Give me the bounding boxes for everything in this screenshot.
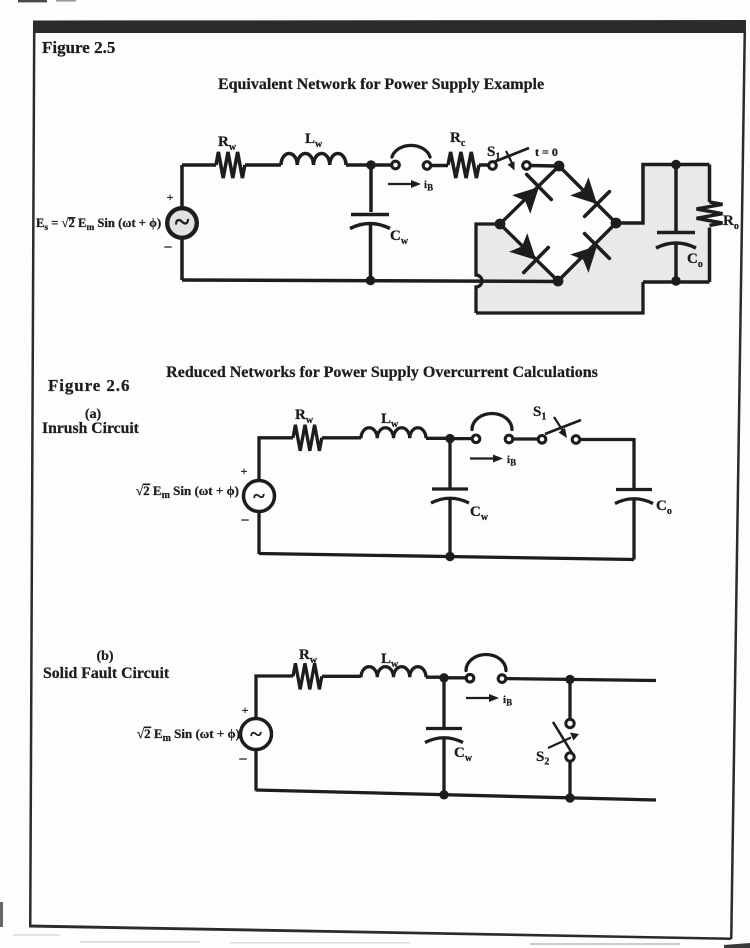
wire: Ro lower lead [708,228,712,283]
node S2 top (b) [565,675,574,684]
svg-text:Figure 2.5: Figure 2.5 [42,38,115,57]
wire: bottom rail fig 2.5 [182,280,558,282]
wire: left rail upper (b) [256,676,293,718]
switch S1 blade (a) [545,420,581,434]
wire: Cw branch upper [369,165,373,212]
CT terminal left (open circle) [392,161,400,169]
current arrow iB (a) [470,457,495,459]
bridge edge L-B [500,224,558,281]
capacitor Cw curved plate (b) [425,738,463,743]
switch S2 closing arrow (b) [548,738,571,749]
capacitor Cw plate [351,213,389,217]
diode D1 (upper-left arm) [512,187,539,214]
wire: Lw to node [346,163,371,167]
wire: top rail to Rw [182,163,216,167]
svg-text:~: ~ [175,207,190,238]
capacitor Cw curved plate [350,224,390,229]
node Co top [671,160,681,170]
switch S1 left contact [489,162,497,170]
wire: CT to Rc [431,164,448,168]
bridge edge T-R [559,166,616,223]
wire: Lw to node (a) [426,437,450,440]
resistor Ro [697,202,723,225]
wire: S1 to right rail (a) [580,438,634,441]
CT terminal left (b) [466,674,474,682]
wire: left rail upper (a) [259,438,293,480]
inductor Lw (a) [361,428,426,439]
svg-text:(b): (b) [96,649,113,664]
CT arc (b) [466,655,506,671]
wire: Cw branch lower [369,224,373,281]
wire: Co branch lower [674,243,678,281]
wire: bottom rail (b) [256,790,657,800]
inductor Lw (b) [361,667,426,678]
node: Cw top junction [366,160,376,170]
CT terminal right (b) [498,675,506,683]
svg-text:–: – [239,751,248,766]
wire: Rw to Lw (b) [322,675,361,678]
wire: negative bus with hop over bottom rail [476,224,500,313]
CT terminal right (a) [505,435,513,443]
capacitor Cw curved plate (a) [431,498,469,503]
svg-text:Solid Fault Circuit: Solid Fault Circuit [43,665,170,682]
node Cw top (b) [439,673,448,682]
wire: Cw branch upper (a) [448,439,451,489]
wire: CT to S1 (a) [513,437,538,440]
capacitor Co curved plate [656,243,696,248]
svg-text:+: + [167,190,174,204]
svg-text:–: – [241,512,250,527]
svg-text:+: + [241,464,248,478]
node Cw bottom (b) [439,790,448,799]
current arrow iB [388,183,413,185]
wire: Rc to S1 [479,163,488,167]
wire: Cw branch lower (a) [448,499,451,557]
radical overline (a) [143,484,150,486]
svg-text:t = 0: t = 0 [535,145,558,159]
resistor Rc [448,152,479,178]
wire: node to CT left terminal [371,163,391,167]
wire: Rw to Lw (a) [322,436,361,439]
CT terminal right (open circle) [423,162,431,170]
wire: S1 to bridge top [530,164,556,168]
node bridge bottom [553,276,564,287]
node S2 bottom (b) [565,793,574,802]
bridge edge T-L [500,166,559,224]
switch S1 right contact [523,162,531,170]
radical overline (b) [144,727,151,729]
switch S1 closing arrow [506,151,513,164]
resistor Rw (b) [293,663,322,689]
switch S2 bottom contact (b) [566,753,574,761]
white diamond interior [500,166,616,281]
diode D3 (lower-left arm) [509,233,536,260]
source V1 AC [167,208,197,238]
wire: S2 lower lead (b) [568,762,571,799]
wire: source bottom lead [180,240,184,281]
wire: Cw branch lower (b) [442,738,445,795]
wire: right rail upper (a) [632,438,635,489]
radical overline [68,217,76,219]
svg-text:Reduced Networks for Power Sup: Reduced Networks for Power Supply Overcu… [166,364,598,381]
node bridge top [554,161,565,172]
svg-text:Figure 2.6: Figure 2.6 [48,376,130,395]
current arrow iB (b) [466,697,491,699]
wire: Cw branch upper (b) [442,678,445,728]
wire: output bottom rail [643,280,710,284]
grey region (DC side shading) [476,165,710,314]
wire: Ro upper lead [708,165,712,203]
wire: CT to right end (b) [506,679,656,681]
wire: Rw to Lw [245,163,281,167]
capacitor Co plate [657,231,695,235]
wire: right rail lower (a) [632,499,635,560]
wire: bottom rail (a) [259,554,634,560]
switch S1 blade [495,148,529,162]
resistor Rw [216,152,245,178]
svg-text:Equivalent Network for Power S: Equivalent Network for Power Supply Exam… [218,76,544,93]
svg-text:~: ~ [253,483,265,508]
switch S1 closing arrow (a) [554,417,563,431]
node Co bottom [671,276,681,286]
wire: Lw to node (b) [426,676,444,679]
CT terminal left (a) [472,435,480,443]
node Cw bottom (a) [445,552,454,561]
wire: node to CT (b) [444,676,465,679]
svg-text:–: – [164,239,173,254]
switch S1 right contact (a) [572,436,580,444]
inductor Lw [281,153,346,165]
node bridge right [611,218,622,229]
source V2 AC (a) [244,481,275,512]
svg-text:~: ~ [250,721,262,746]
diode D2 (upper-right arm) [570,177,597,204]
CT arc (a) [472,414,512,430]
wire: S2 upper lead (b) [568,679,571,719]
switch S2 top contact (b) [566,719,574,727]
wire: grey outline step down [476,282,643,313]
wire: left rail lower (a) [257,512,260,554]
wire: left rail lower (b) [254,750,257,791]
bridge edge B-R [558,223,616,281]
diode D4 (lower-right arm) [570,246,597,273]
capacitor Cw plate (b) [426,727,462,730]
wire: Co branch upper [674,165,678,233]
wire: source top to top rail [180,165,184,207]
wire: node to CT (a) [450,437,471,440]
switch S1 left contact (a) [538,436,546,444]
svg-text:+: + [242,703,249,717]
capacitor Co curved plate (a) [615,499,653,504]
resistor Rw (a) [293,425,322,451]
source V3 AC (b) [241,719,272,750]
node bridge left [495,219,506,230]
svg-text:Inrush Circuit: Inrush Circuit [42,420,140,437]
switch S2 blade (b) [553,722,572,753]
capacitor Co plate (a) [616,488,652,491]
node Cw top (a) [445,434,454,443]
CT arc [392,145,430,157]
capacitor Cw plate (a) [432,487,468,490]
node Cw bottom [366,276,376,286]
wire: bridge right to output top rail [616,165,710,224]
